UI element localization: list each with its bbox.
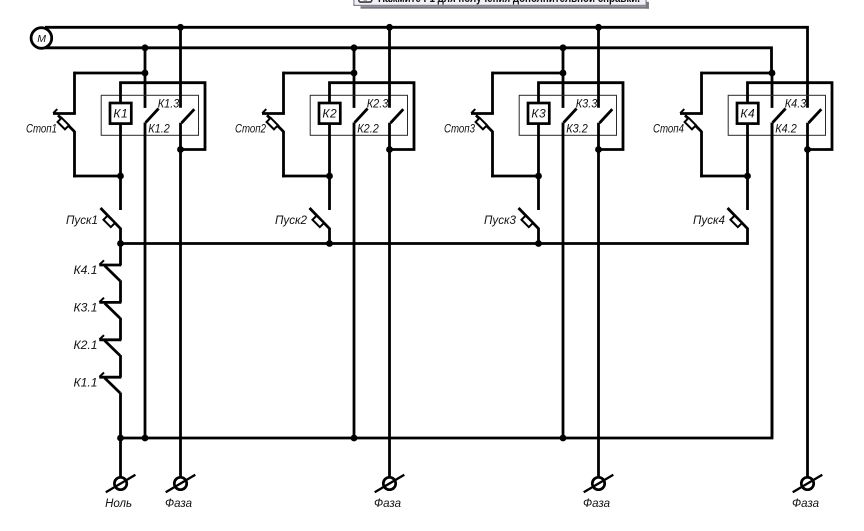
relay boundary box 4 xyxy=(728,95,825,135)
pushbutton Стоп4 (NC) xyxy=(680,72,703,178)
wire: bus to node 3 xyxy=(562,48,565,108)
node loop dot 1 xyxy=(177,146,184,153)
svg-text:К3.3: К3.3 xyxy=(576,98,598,110)
svg-text:К4: К4 xyxy=(740,107,755,121)
node top-bus dot 1 xyxy=(177,24,184,31)
wire: chain segment above К2.1 xyxy=(119,318,122,340)
wire: Стоп1 to coil node xyxy=(73,175,120,178)
node loop dot 3 xyxy=(595,146,602,153)
tooltip shadow bottom xyxy=(361,6,649,9)
svg-text:К4.2: К4.2 xyxy=(775,123,797,135)
node bottom-bus dot 2 xyxy=(142,435,149,442)
wire: coil K1 bottom xyxy=(119,124,122,178)
svg-text:Пуск4: Пуск4 xyxy=(693,215,725,227)
svg-text:Стоп1: Стоп1 xyxy=(26,123,57,135)
wire: contact K4.2 down to terminal xyxy=(806,123,809,478)
svg-text:Пуск2: Пуск2 xyxy=(275,215,308,227)
svg-text:Фаза: Фаза xyxy=(165,498,192,510)
wire: coil K4 bottom xyxy=(746,124,749,178)
svg-text:Стоп4: Стоп4 xyxy=(653,123,684,135)
wire: node to Стоп2 xyxy=(284,72,355,75)
node start-bus dot 1 xyxy=(117,240,124,247)
contact К3.1 (NC) xyxy=(99,298,121,318)
svg-text:Нажмите F1 для получения допол: Нажмите F1 для получения дополнительной … xyxy=(378,0,640,5)
wire: node to Стоп4 xyxy=(702,72,773,75)
node N4 junction dot xyxy=(769,70,776,77)
wire: chain segment above К1.1 xyxy=(119,355,122,377)
wire: top phase bus xyxy=(45,27,808,107)
node 2nd-bus dot 1 xyxy=(142,44,149,51)
wire: node to Стоп1 xyxy=(75,72,146,75)
wire: top bus drop to contact K3.2 xyxy=(597,27,600,107)
terminal Фаза 1 xyxy=(166,475,196,492)
wire: contact K2.2 down to terminal xyxy=(388,123,391,478)
svg-text:Пуск1: Пуск1 xyxy=(66,215,98,227)
wire: feedback loop of K1 xyxy=(121,83,206,150)
wire: bus corner to node 4 xyxy=(771,73,774,108)
node bottom-bus dot 4 xyxy=(560,435,567,442)
svg-text:К3: К3 xyxy=(531,107,546,121)
wire: contact K4.3 down to bottom bus xyxy=(771,123,774,439)
pushbutton Стоп1 (NC) xyxy=(53,72,76,178)
contact К2.1 (NC) xyxy=(99,335,121,355)
motor M xyxy=(31,28,52,49)
relay boundary box 2 xyxy=(310,95,407,135)
node coil-bottom dot 3 xyxy=(535,173,542,180)
pushbutton Пуск2 (NO) xyxy=(310,176,330,245)
wire: feedback loop of K2 xyxy=(330,83,415,150)
wire: top bus drop to contact K1.2 xyxy=(179,27,182,107)
wire: chain segment above К4.1 xyxy=(119,244,122,266)
svg-text:К1.3: К1.3 xyxy=(158,98,180,110)
wire: start-button bus xyxy=(121,242,748,245)
terminal Ноль (neutral) xyxy=(106,475,136,492)
svg-text:К2.1: К2.1 xyxy=(74,340,98,352)
wire: Стоп4 to coil node xyxy=(700,175,747,178)
svg-text:Фаза: Фаза xyxy=(374,498,401,510)
pushbutton Стоп3 (NC) xyxy=(471,72,494,178)
wire: coil K3 bottom xyxy=(537,124,540,178)
contact K4.3 (NO) xyxy=(773,109,786,123)
terminal Фаза 2 xyxy=(375,475,405,492)
wire: bus to node 1 xyxy=(144,48,147,108)
wire: coil K2 bottom xyxy=(328,124,331,178)
wire: Стоп3 to coil node xyxy=(491,175,538,178)
wire: contact K1.3 down to bottom bus xyxy=(144,123,147,439)
svg-text:К2: К2 xyxy=(322,107,337,121)
svg-text:К1: К1 xyxy=(113,107,128,121)
node N1 junction dot xyxy=(142,70,149,77)
wire: chain segment above К3.1 xyxy=(119,280,122,302)
relay boundary box 3 xyxy=(519,95,616,135)
svg-text:Стоп2: Стоп2 xyxy=(235,123,266,135)
wire: bottom neutral bus xyxy=(121,123,773,439)
contact K2.3 (NO) xyxy=(355,109,368,123)
svg-text:К2.2: К2.2 xyxy=(357,123,379,135)
svg-text:К1.2: К1.2 xyxy=(148,123,170,135)
tooltip shadow right xyxy=(646,2,649,9)
node coil-bottom dot 2 xyxy=(326,173,333,180)
coil K2 xyxy=(319,103,340,124)
contact K4.2 (NO) xyxy=(809,109,822,123)
wire: chain bottom segment xyxy=(119,393,122,439)
wire: contact K1.2 down to terminal xyxy=(179,123,182,478)
node top-bus dot 3 xyxy=(595,24,602,31)
wire: top bus drop to contact K2.2 xyxy=(388,27,391,107)
svg-text:Стоп3: Стоп3 xyxy=(444,123,475,135)
node N2 junction dot xyxy=(351,70,358,77)
terminal Фаза 4 xyxy=(793,475,823,492)
contact K3.2 (NO) xyxy=(600,109,613,123)
terminal Фаза 3 xyxy=(584,475,614,492)
contact K3.3 (NO) xyxy=(564,109,577,123)
wire: second phase bus xyxy=(45,48,772,73)
svg-text:Фаза: Фаза xyxy=(792,498,819,510)
svg-text:Фаза: Фаза xyxy=(583,498,610,510)
pushbutton Стоп2 (NC) xyxy=(262,72,285,178)
svg-text:К1.1: К1.1 xyxy=(74,377,98,389)
svg-text:К2.3: К2.3 xyxy=(367,98,389,110)
svg-text:К4.1: К4.1 xyxy=(74,265,98,277)
node coil-bottom dot 4 xyxy=(744,173,751,180)
wire: neutral drop to terminal xyxy=(119,438,122,477)
node N3 junction dot xyxy=(560,70,567,77)
wire: bus to node 2 xyxy=(353,48,356,108)
wire: Стоп2 to coil node xyxy=(282,175,329,178)
coil K3 xyxy=(528,103,549,124)
svg-text:К4.3: К4.3 xyxy=(785,98,807,110)
contact K2.2 (NO) xyxy=(391,109,404,123)
node 2nd-bus dot 2 xyxy=(351,44,358,51)
pushbutton Пуск4 (NO) xyxy=(728,176,748,245)
relay boundary box 1 xyxy=(101,95,198,135)
node top-bus dot 2 xyxy=(386,24,393,31)
node bottom-bus dot 1 xyxy=(117,435,124,442)
node loop dot 2 xyxy=(386,146,393,153)
node coil-bottom dot 1 xyxy=(117,173,124,180)
wire: contact K3.3 down to bottom bus xyxy=(562,123,565,439)
wire: feedback loop of K3 xyxy=(539,83,624,150)
contact K1.2 (NO) xyxy=(182,109,195,123)
svg-text:К3.1: К3.1 xyxy=(74,303,98,315)
wire: node to Стоп3 xyxy=(493,72,564,75)
tooltip box (partially cut off at top) xyxy=(354,0,646,5)
coil K4 xyxy=(737,103,758,124)
svg-text:К3.2: К3.2 xyxy=(566,123,588,135)
node start-bus dot 3 xyxy=(535,240,542,247)
node start-bus dot 2 xyxy=(326,240,333,247)
contact K1.3 (NO) xyxy=(146,109,159,123)
wire: contact K2.3 down to bottom bus xyxy=(353,123,356,439)
contact К1.1 (NC) xyxy=(99,373,121,393)
wire: feedback loop of K4 xyxy=(748,83,833,150)
contact К4.1 (NC) xyxy=(99,260,121,280)
node 2nd-bus dot 3 xyxy=(560,44,567,51)
pushbutton Пуск1 (NO) xyxy=(101,176,121,245)
node bottom-bus dot 3 xyxy=(351,435,358,442)
coil K1 xyxy=(110,103,131,124)
tooltip help icon xyxy=(359,0,372,2)
node loop dot 4 xyxy=(804,146,811,153)
wire: contact K3.2 down to terminal xyxy=(597,123,600,478)
svg-text:Ноль: Ноль xyxy=(105,498,132,510)
pushbutton Пуск3 (NO) xyxy=(519,176,539,245)
svg-text:Пуск3: Пуск3 xyxy=(484,215,517,227)
svg-text:М: М xyxy=(37,33,46,45)
